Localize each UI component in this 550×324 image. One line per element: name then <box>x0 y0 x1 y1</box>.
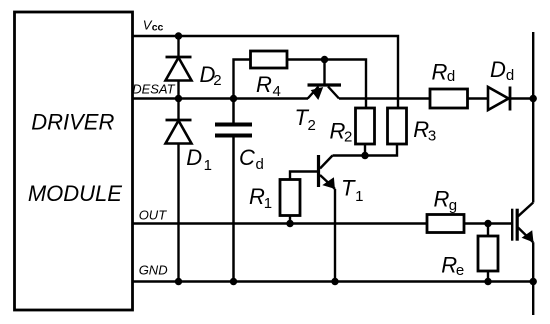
svg-text:R: R <box>256 72 272 97</box>
svg-text:1: 1 <box>355 188 363 205</box>
node dot DESAT-Cd-R4 <box>230 95 237 102</box>
label D1 <box>186 145 212 174</box>
resistor R4 <box>234 51 367 108</box>
svg-text:2: 2 <box>308 117 316 134</box>
label T2 <box>295 105 316 134</box>
svg-text:d: d <box>447 68 455 85</box>
svg-text:D: D <box>490 57 506 82</box>
label R3 <box>413 117 436 144</box>
wire Dd to rail <box>511 97 534 99</box>
label D2 <box>200 62 222 89</box>
node dot GND-D1 <box>175 278 182 285</box>
node dot GND-Cd <box>230 278 237 285</box>
svg-text:D: D <box>186 145 202 170</box>
diode D1 <box>166 99 192 282</box>
node dot DESAT-D1D2 <box>175 95 182 102</box>
svg-text:g: g <box>449 197 457 214</box>
node dot R2R3 bottom <box>361 152 368 159</box>
svg-text:T: T <box>341 175 356 200</box>
resistor Rg <box>427 215 464 233</box>
wire Rd to Dd <box>468 97 489 99</box>
wire Vcc horizontal <box>132 36 398 108</box>
wire emitter rail bottom <box>532 242 534 315</box>
label Cd <box>239 145 264 173</box>
node dot R1-OUT <box>286 220 293 227</box>
svg-text:e: e <box>456 262 464 279</box>
svg-text:R: R <box>432 59 448 84</box>
svg-text:OUT: OUT <box>139 208 168 223</box>
node dot Dd-rail <box>530 95 537 102</box>
capacitor Cd <box>215 99 252 282</box>
svg-text:3: 3 <box>428 128 436 145</box>
svg-text:C: C <box>239 145 255 170</box>
label Rd <box>432 59 456 85</box>
wire DESAT horizontal (left of T2) <box>132 97 308 99</box>
label R2 <box>330 118 353 145</box>
wire collector rail top <box>532 32 534 203</box>
svg-text:R: R <box>441 252 457 277</box>
IGBT Q <box>512 203 533 243</box>
resistor R3 <box>365 108 407 156</box>
svg-text:R: R <box>249 184 265 209</box>
svg-text:1: 1 <box>204 157 212 174</box>
label R1 <box>249 184 272 212</box>
svg-text:d: d <box>256 156 264 173</box>
svg-text:DRIVER: DRIVER <box>31 110 114 135</box>
wire Rg to gate <box>464 222 511 224</box>
node dot Vcc-D2 <box>175 32 182 39</box>
svg-text:2: 2 <box>213 72 221 89</box>
node dot GND-Re <box>484 278 491 285</box>
wire GND horizontal <box>132 280 533 282</box>
svg-text:R: R <box>413 117 429 142</box>
node dot gate-Re <box>484 220 491 227</box>
resistor Rd <box>430 89 468 108</box>
svg-text:d: d <box>506 67 514 84</box>
svg-text:2: 2 <box>344 129 352 146</box>
svg-text:GND: GND <box>139 263 168 278</box>
pin label Vcc <box>143 17 164 33</box>
svg-text:1: 1 <box>264 195 272 212</box>
label T1 <box>341 175 363 205</box>
wire OUT horizontal <box>132 222 427 224</box>
svg-text:R: R <box>434 187 450 212</box>
svg-text:cc: cc <box>152 22 164 34</box>
node dot GND-T1 <box>331 278 338 285</box>
resistor Re <box>478 224 498 282</box>
svg-text:4: 4 <box>273 83 281 100</box>
diode D2 <box>166 36 192 99</box>
driver module box <box>15 12 133 310</box>
label Re <box>441 252 464 279</box>
label Dd <box>490 57 514 84</box>
svg-text:DESAT: DESAT <box>132 81 175 96</box>
svg-text:MODULE: MODULE <box>28 181 122 206</box>
label Rg <box>434 187 458 214</box>
resistor R2 <box>356 108 375 156</box>
node dot GND-rail <box>530 278 537 285</box>
wire T2 collector to Rd <box>339 97 430 99</box>
label R4 <box>256 72 281 100</box>
diode Dd <box>488 87 510 111</box>
resistor R1 <box>280 180 300 224</box>
node dot T2 base <box>321 56 328 63</box>
transistor T1 <box>290 155 365 282</box>
transistor T2 <box>308 60 342 101</box>
